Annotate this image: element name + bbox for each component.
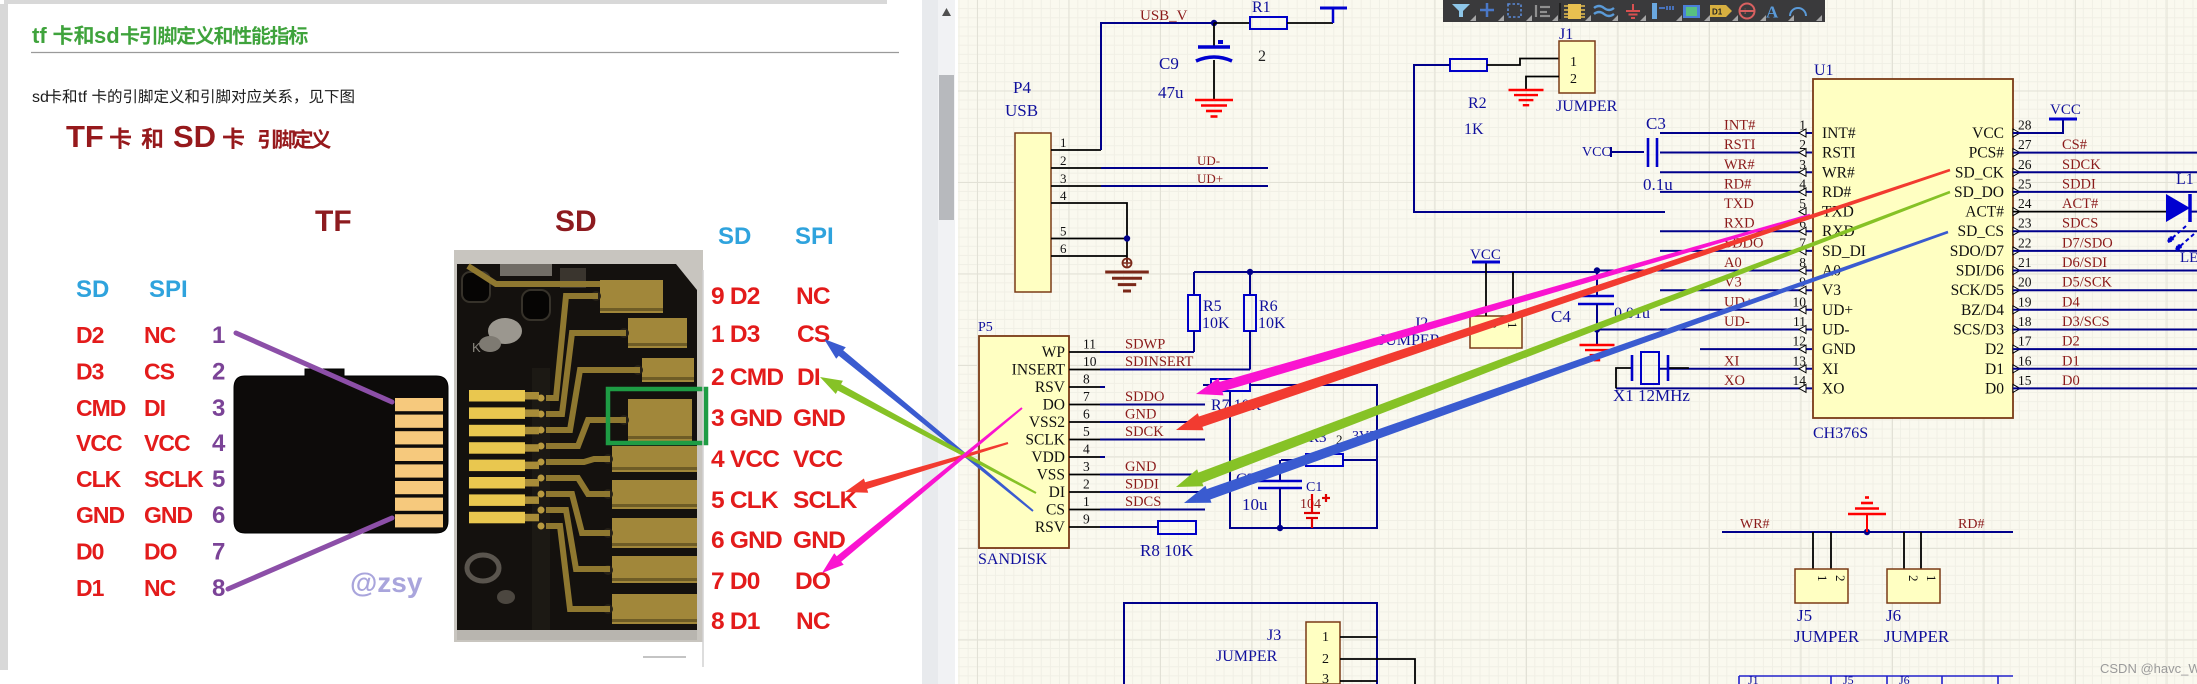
wire P5 pin 4 xyxy=(1069,456,1100,458)
wire U1 pin 10 net UD+ xyxy=(1660,309,1812,311)
svg-text:PCS#: PCS# xyxy=(1969,145,2005,162)
svg-text:10: 10 xyxy=(1083,354,1097,369)
svg-text:9: 9 xyxy=(1083,512,1090,527)
wire R2 to J1 pin1 xyxy=(1487,59,1559,66)
jumper J2 xyxy=(1379,315,1522,349)
junction dot A0 net xyxy=(1594,267,1600,273)
svg-text:SD: SD xyxy=(76,276,109,303)
wire P5 pin 5 xyxy=(1069,439,1100,441)
svg-text:D6/SDI: D6/SDI xyxy=(2062,255,2107,271)
wire P5 pin 9 xyxy=(1069,526,1100,528)
svg-text:CS: CS xyxy=(144,359,175,385)
wire box around R3/C2/C1 xyxy=(1230,385,1377,528)
annotation arrow magenta U1 to SDDO xyxy=(1196,214,1810,396)
svg-text:SD: SD xyxy=(555,205,597,238)
svg-text:SCS/D3: SCS/D3 xyxy=(1953,322,2004,339)
svg-text:1K: 1K xyxy=(1464,121,1484,138)
svg-text:TF: TF xyxy=(315,205,352,238)
wire UD+ from P4 pin3 xyxy=(1101,185,1268,187)
svg-text:XI: XI xyxy=(1822,361,1838,378)
capacitor C1 104 xyxy=(1277,480,1330,531)
svg-text:5: 5 xyxy=(1060,224,1067,239)
svg-text:NC: NC xyxy=(796,608,831,635)
wire U1 pin 19 net D4 xyxy=(2013,309,2197,311)
ground below C4 xyxy=(1580,344,1615,346)
svg-text:8: 8 xyxy=(212,575,225,602)
svg-text:SD_DI: SD_DI xyxy=(1822,243,1866,260)
junction dot UD- net xyxy=(1594,326,1600,332)
svg-text:J5: J5 xyxy=(1797,606,1812,625)
svg-text:J6: J6 xyxy=(1886,606,1901,625)
svg-text:UD-: UD- xyxy=(1197,153,1220,168)
svg-text:SDDI: SDDI xyxy=(2062,176,2096,192)
svg-text:INT#: INT# xyxy=(1822,125,1856,142)
svg-text:WR#: WR# xyxy=(1822,164,1855,181)
svg-text:D4: D4 xyxy=(2062,294,2080,310)
resistor R8 10K xyxy=(1140,521,1196,560)
svg-text:11: 11 xyxy=(1083,337,1096,352)
svg-text:25: 25 xyxy=(2018,176,2032,191)
wire P5 pin 2 xyxy=(1069,491,1100,493)
svg-text:JUMPER: JUMPER xyxy=(1216,648,1278,665)
svg-text:24: 24 xyxy=(2018,196,2032,211)
photo right separator line xyxy=(702,270,704,667)
wire U1 pin 8 net A0 xyxy=(1597,270,1812,272)
LED L1 xyxy=(2166,171,2197,266)
annotation arrow red SCLK xyxy=(845,442,1008,493)
svg-text:GND: GND xyxy=(1125,459,1156,475)
svg-text:J5: J5 xyxy=(1843,673,1854,684)
wire C3 to U1 RSTI xyxy=(1660,152,1812,154)
svg-text:SPI: SPI xyxy=(149,276,188,303)
svg-text:GND: GND xyxy=(1125,407,1156,423)
svg-text:SD_DO: SD_DO xyxy=(1954,184,2004,201)
svg-text:4: 4 xyxy=(212,430,226,457)
svg-text:2: 2 xyxy=(1570,72,1577,87)
svg-text:5: 5 xyxy=(212,466,225,493)
svg-text:VCC: VCC xyxy=(1972,125,2004,142)
intro paragraph xyxy=(32,89,354,106)
svg-text:ACT#: ACT# xyxy=(2062,196,2098,212)
svg-text:RD#: RD# xyxy=(1822,184,1852,201)
svg-text:VCC: VCC xyxy=(1582,145,1611,160)
svg-text:C3: C3 xyxy=(1646,114,1666,133)
wire ACT# to LED xyxy=(2013,211,2166,213)
svg-text:2: 2 xyxy=(1322,652,1329,667)
wire P5 pin 1 xyxy=(1069,509,1100,511)
svg-text:10u: 10u xyxy=(1242,495,1268,514)
svg-text:23: 23 xyxy=(2018,216,2032,231)
svg-text:CS#: CS# xyxy=(2062,137,2087,153)
annotation arrow green DI xyxy=(820,377,1037,494)
svg-text:VSS2: VSS2 xyxy=(1029,414,1065,431)
wire U1 pin 15 net D0 xyxy=(2013,387,2197,389)
svg-text:L1: L1 xyxy=(2176,171,2194,188)
svg-text:7: 7 xyxy=(1083,389,1090,404)
svg-text:1: 1 xyxy=(1322,630,1329,645)
svg-text:SCLK: SCLK xyxy=(144,466,204,492)
svg-text:SDINSERT: SDINSERT xyxy=(1125,354,1194,370)
svg-text:UD-: UD- xyxy=(1724,314,1750,330)
wire P5 pin 6 xyxy=(1069,421,1100,423)
svg-text:17: 17 xyxy=(2018,334,2032,349)
svg-text:R8 10K: R8 10K xyxy=(1140,541,1194,560)
wire U1 pin 21 net D6/SDI xyxy=(2013,270,2197,272)
svg-text:20: 20 xyxy=(2018,275,2032,290)
svg-text:CH376S: CH376S xyxy=(1813,425,1868,442)
wire U1 pin 11 net UD- xyxy=(1597,329,1812,331)
scrollbar gutter xyxy=(922,0,938,684)
scrollbar thumb xyxy=(939,75,954,220)
wire U1 pin 18 net D3/SCS xyxy=(2013,329,2197,331)
svg-text:SDCK: SDCK xyxy=(2062,157,2101,173)
svg-text:1: 1 xyxy=(212,322,225,349)
right pin table rows xyxy=(711,283,858,635)
svg-text:VCC: VCC xyxy=(76,430,122,456)
green highlight rectangle xyxy=(608,389,706,443)
jumper J3 xyxy=(1216,622,1340,684)
svg-text:tf: tf xyxy=(78,89,87,106)
svg-text:GND: GND xyxy=(793,527,845,554)
svg-text:D3/SCS: D3/SCS xyxy=(2062,314,2110,330)
diagram title: TF card and SD card pin definition xyxy=(66,119,331,154)
jumper J6 xyxy=(1884,532,1950,646)
svg-text:2: 2 xyxy=(1906,575,1921,582)
svg-text:DI: DI xyxy=(1049,484,1065,501)
svg-text:UD+: UD+ xyxy=(1197,171,1223,186)
wire P4 pin1 to USB_V rail xyxy=(1101,23,1214,150)
wire U1 pin 27 net CS# xyxy=(2013,152,2197,154)
wire P5 pin 7 xyxy=(1069,404,1100,406)
svg-text:D2: D2 xyxy=(1985,341,2004,358)
svg-text:RSV: RSV xyxy=(1035,379,1066,396)
svg-text:J6: J6 xyxy=(1899,673,1910,684)
svg-text:DI: DI xyxy=(144,395,165,421)
svg-text:J1: J1 xyxy=(1748,673,1759,684)
svg-text:10K: 10K xyxy=(1258,315,1286,332)
svg-text:GND: GND xyxy=(793,405,845,432)
svg-text:2: 2 xyxy=(1833,575,1848,582)
svg-text:2: 2 xyxy=(1083,477,1090,492)
svg-text:SDO/D7: SDO/D7 xyxy=(1950,243,2005,260)
svg-text:SPI: SPI xyxy=(795,223,834,250)
wire P5 pin 11 xyxy=(1069,351,1100,353)
svg-text:RD#: RD# xyxy=(1724,176,1751,192)
purple line pin8 xyxy=(228,518,392,589)
svg-text:9 D2: 9 D2 xyxy=(711,283,760,310)
SD card photo xyxy=(454,250,703,657)
svg-text:JUMPER: JUMPER xyxy=(1884,627,1950,646)
wire U1 pin 1 net INT# xyxy=(1660,132,1812,134)
svg-text:4: 4 xyxy=(1083,442,1090,457)
svg-text:GND: GND xyxy=(144,502,193,528)
svg-text:4: 4 xyxy=(1060,188,1067,203)
capacitor C2 10u xyxy=(1236,460,1302,528)
svg-text:R5: R5 xyxy=(1203,298,1222,315)
svg-text:18: 18 xyxy=(2018,314,2032,329)
svg-text:26: 26 xyxy=(2018,157,2032,172)
wire P5 pin 3 xyxy=(1069,474,1100,476)
svg-text:3: 3 xyxy=(212,395,225,422)
resistor R3 xyxy=(1281,429,1377,466)
wire U1 pin 20 net D5/SCK xyxy=(2013,289,2197,291)
svg-text:A0: A0 xyxy=(1724,255,1742,271)
resistor R2 1K xyxy=(1450,59,1487,138)
svg-text:1: 1 xyxy=(1060,135,1067,150)
svg-text:sd: sd xyxy=(94,23,120,48)
schematic toolbar xyxy=(1443,0,1825,22)
svg-text:WR#: WR# xyxy=(1724,157,1755,173)
svg-text:JUMPER: JUMPER xyxy=(1794,627,1860,646)
svg-text:6: 6 xyxy=(1083,407,1090,422)
svg-text:19: 19 xyxy=(2018,294,2032,309)
svg-text:RD#: RD# xyxy=(1958,517,1984,532)
svg-text:VCC: VCC xyxy=(2050,102,2081,118)
svg-text:D1: D1 xyxy=(76,575,105,601)
svg-text:D0: D0 xyxy=(1985,380,2004,397)
svg-text:SDDI: SDDI xyxy=(1125,477,1159,493)
svg-text:SDDO: SDDO xyxy=(1125,389,1164,405)
svg-text:C4: C4 xyxy=(1551,307,1571,326)
svg-text:DO: DO xyxy=(795,568,831,595)
connector P5 SANDISK xyxy=(978,320,1069,568)
svg-text:7 D0: 7 D0 xyxy=(711,568,760,595)
resistor R1 xyxy=(1214,0,1287,65)
svg-text:D2: D2 xyxy=(76,322,104,348)
ground above J5/J6 rail xyxy=(1848,498,1886,533)
annotation arrow magenta DO xyxy=(822,407,1023,573)
svg-text:U1: U1 xyxy=(1814,62,1834,79)
capacitor C9 47u (polarized) xyxy=(1158,20,1232,102)
svg-text:GND: GND xyxy=(1822,341,1856,358)
svg-text:10K: 10K xyxy=(1202,315,1230,332)
svg-text:J3: J3 xyxy=(1267,627,1281,644)
wire J2 pin to A0 net xyxy=(1512,272,1514,316)
svg-text:RSTI: RSTI xyxy=(1822,145,1856,162)
svg-text:BZ/D4: BZ/D4 xyxy=(1961,302,2004,319)
svg-text:UD-: UD- xyxy=(1822,322,1850,339)
left pin numbers 1-8 xyxy=(212,322,226,602)
wire P4 pin4/5/6 to ground xyxy=(1101,203,1127,262)
svg-text:ACT#: ACT# xyxy=(1965,204,2004,221)
wire P5 pin 8 xyxy=(1069,386,1100,388)
svg-text:1: 1 xyxy=(1924,575,1939,582)
svg-text:3: 3 xyxy=(1060,171,1067,186)
wire pullup rail xyxy=(1194,271,1597,273)
svg-text:XO: XO xyxy=(1822,380,1844,397)
title block grid xyxy=(1739,676,2013,684)
svg-text:47u: 47u xyxy=(1158,83,1184,102)
svg-text:8 D1: 8 D1 xyxy=(711,608,760,635)
svg-text:JUMPER: JUMPER xyxy=(1556,98,1618,115)
svg-text:CMD: CMD xyxy=(76,395,126,421)
svg-text:INSERT: INSERT xyxy=(1012,362,1066,379)
svg-text:WP: WP xyxy=(1042,344,1065,361)
svg-text:C1: C1 xyxy=(1306,480,1322,495)
scrollbar track xyxy=(938,0,955,684)
wire U1 pin 16 net D1 xyxy=(2013,368,2197,370)
page top border xyxy=(4,0,887,4)
svg-text:5 CLK: 5 CLK xyxy=(711,487,779,514)
jumper J1 xyxy=(1556,26,1618,115)
wire U1 pin 3 net WR# xyxy=(1660,171,1812,173)
svg-text:27: 27 xyxy=(2018,137,2032,152)
resistor R6 10K xyxy=(1244,269,1286,370)
resistor R7 10K xyxy=(1203,379,1262,414)
wire UD- from P4 pin2 xyxy=(1101,167,1268,169)
wire U1 pin 6 net RXD xyxy=(1660,230,1812,232)
svg-text:K: K xyxy=(472,340,481,355)
jumper J5 xyxy=(1794,532,1860,646)
svg-text:21: 21 xyxy=(2018,255,2032,270)
svg-text:104: 104 xyxy=(1300,497,1321,512)
svg-text:GND: GND xyxy=(76,502,125,528)
svg-text:15: 15 xyxy=(2018,373,2032,388)
wire U1 pin 14 net XO xyxy=(1616,387,1812,389)
svg-text:SD: SD xyxy=(718,223,751,250)
svg-text:TXD: TXD xyxy=(1724,196,1754,212)
svg-text:SDCK: SDCK xyxy=(1125,424,1164,440)
svg-text:RSV: RSV xyxy=(1035,519,1066,536)
annotation arrow blue U1 to SDCS xyxy=(1184,231,1948,503)
svg-text:SD: SD xyxy=(173,119,216,154)
svg-text:NC: NC xyxy=(796,283,831,310)
annotation arrow blue CS xyxy=(824,339,1034,512)
svg-text:WR#: WR# xyxy=(1740,517,1770,532)
svg-text:5: 5 xyxy=(1083,424,1090,439)
svg-text:C9: C9 xyxy=(1159,54,1179,73)
svg-text:USB_V: USB_V xyxy=(1140,8,1188,24)
svg-text:LED: LED xyxy=(2180,250,2197,266)
svg-text:6: 6 xyxy=(1060,241,1067,256)
svg-text:R2: R2 xyxy=(1468,95,1487,112)
svg-text:A: A xyxy=(1766,3,1779,22)
wire J1 pin2 to ground xyxy=(1526,77,1559,91)
wire U1 pin 26 net SDCK xyxy=(2013,171,2197,173)
crystal X1 12MHz xyxy=(1613,352,1690,405)
svg-text:CSDN @havc_W: CSDN @havc_W xyxy=(2100,661,2197,676)
svg-text:RXD: RXD xyxy=(1724,216,1755,232)
wire U1 pin 7 net SDDO xyxy=(1660,250,1812,252)
wire U1 pin 22 net D7/SDO xyxy=(2013,250,2197,252)
svg-text:P4: P4 xyxy=(1013,78,1031,97)
svg-text:2: 2 xyxy=(1060,153,1067,168)
left pin table rows xyxy=(76,322,204,601)
svg-text:UD+: UD+ xyxy=(1822,302,1853,319)
wire WR#/RD# rail xyxy=(1722,531,2013,533)
capacitor C3 0.1u xyxy=(1611,114,1673,194)
svg-text:tf: tf xyxy=(32,23,47,48)
svg-text:7: 7 xyxy=(212,539,225,566)
svg-text:1 D3: 1 D3 xyxy=(711,321,760,348)
page left border xyxy=(0,4,8,670)
svg-text:D3: D3 xyxy=(76,359,104,385)
svg-text:NC: NC xyxy=(144,322,176,348)
svg-text:DI: DI xyxy=(797,364,820,391)
svg-text:3 GND: 3 GND xyxy=(711,405,782,432)
capacitor C4 0.01u xyxy=(1551,272,1650,345)
svg-text:XO: XO xyxy=(1724,373,1745,389)
svg-text:2: 2 xyxy=(212,359,225,386)
svg-text:SCLK: SCLK xyxy=(1025,432,1065,449)
svg-text:3: 3 xyxy=(1322,672,1329,684)
ground below J1 pin2 xyxy=(1509,89,1544,91)
svg-text:USB: USB xyxy=(1005,101,1038,120)
wire U1 pin 23 net SDCS xyxy=(2013,230,2197,232)
svg-text:SD_CS: SD_CS xyxy=(1957,223,2004,240)
svg-text:16: 16 xyxy=(2018,353,2032,368)
svg-text:VDD: VDD xyxy=(1031,449,1065,466)
svg-text:D2: D2 xyxy=(2062,334,2080,350)
purple line pin1 xyxy=(236,333,392,402)
svg-text:SDI/D6: SDI/D6 xyxy=(1956,263,2004,280)
svg-text:P5: P5 xyxy=(978,320,993,335)
svg-text:CLK: CLK xyxy=(76,466,122,492)
ground below C9 xyxy=(1195,99,1233,102)
svg-text:TF: TF xyxy=(66,119,104,154)
svg-text:8: 8 xyxy=(1083,372,1090,387)
svg-text:DO: DO xyxy=(144,539,177,565)
microSD card drawing xyxy=(234,369,448,533)
svg-text:RSTI: RSTI xyxy=(1724,137,1756,153)
wire U1 pin 12 net NC xyxy=(1700,348,1812,350)
svg-text:D0: D0 xyxy=(2062,373,2080,389)
annotation arrow green U1 to SDDI xyxy=(1176,191,1950,487)
svg-text:X1 12MHz: X1 12MHz xyxy=(1613,386,1690,405)
wire R1 to power port xyxy=(1287,22,1333,24)
svg-text:D0: D0 xyxy=(76,539,104,565)
left page: article heading (green) xyxy=(32,23,308,48)
svg-text:1: 1 xyxy=(1815,575,1830,582)
svg-text:1: 1 xyxy=(1505,322,1520,329)
svg-text:6: 6 xyxy=(212,502,225,529)
svg-text:D5/SCK: D5/SCK xyxy=(2062,275,2112,291)
wire U1 pin 4 net RD# xyxy=(1660,191,1812,193)
svg-text:INT#: INT# xyxy=(1724,118,1755,134)
power ground symbol below P4 (earth) xyxy=(1123,259,1132,268)
svg-text:D1: D1 xyxy=(1712,8,1723,17)
svg-text:sd: sd xyxy=(32,89,49,106)
svg-text:NC: NC xyxy=(144,575,176,601)
svg-text:R6: R6 xyxy=(1259,298,1278,315)
svg-text:28: 28 xyxy=(2018,118,2032,133)
svg-text:VCC: VCC xyxy=(144,430,190,456)
svg-text:D1: D1 xyxy=(1985,361,2004,378)
svg-text:SD_CK: SD_CK xyxy=(1955,164,2005,181)
svg-text:XI: XI xyxy=(1724,353,1739,369)
power port top right of R1 xyxy=(1332,8,1335,23)
svg-text:SANDISK: SANDISK xyxy=(978,551,1048,568)
wire P5 pin 10 xyxy=(1069,369,1100,371)
wires J3 harness xyxy=(1124,603,1377,684)
wire U1 pin 9 net V3 xyxy=(1660,289,1812,291)
svg-text:4 VCC: 4 VCC xyxy=(711,446,780,473)
annotation arrow red U1 to SDCK xyxy=(1176,169,1950,431)
svg-text:D7/SDO: D7/SDO xyxy=(2062,235,2113,251)
svg-text:SDWP: SDWP xyxy=(1125,337,1165,353)
IC U1 CH376S xyxy=(1813,62,2013,442)
svg-text:V3: V3 xyxy=(1822,282,1841,299)
heading underline xyxy=(31,52,899,54)
scrollbar up arrow xyxy=(942,8,951,16)
wire U1 pin 17 net D2 xyxy=(2013,348,2197,350)
svg-text:@zsy: @zsy xyxy=(350,567,423,598)
svg-text:VCC: VCC xyxy=(793,446,843,473)
svg-text:D1: D1 xyxy=(2062,353,2080,369)
wire U1 pin 25 net SDDI xyxy=(2013,191,2197,193)
svg-text:2: 2 xyxy=(1258,48,1266,65)
svg-text:SDCS: SDCS xyxy=(2062,216,2098,232)
